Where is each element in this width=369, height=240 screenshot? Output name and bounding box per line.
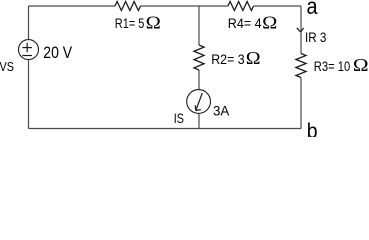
svg-text:VS: VS <box>0 59 14 74</box>
current arrow IR3 <box>297 28 304 32</box>
resistor R1 <box>115 2 140 11</box>
wire mid junction to R4 <box>199 5 228 7</box>
svg-text:b: b <box>307 119 318 137</box>
svg-text:a: a <box>307 0 318 19</box>
wire mid junction down to R2 <box>198 6 200 45</box>
wire top-left to R1 <box>29 5 116 7</box>
svg-text:Ω: Ω <box>353 55 369 75</box>
wire IS to bottom <box>198 113 200 128</box>
svg-text:R4= 4: R4= 4 <box>228 15 262 31</box>
resistor R4 <box>228 2 253 11</box>
svg-text:Ω: Ω <box>246 48 261 68</box>
wire node a down right side <box>300 6 302 54</box>
wire left side top to VS <box>28 6 30 40</box>
svg-text:20 V: 20 V <box>43 44 72 62</box>
wire VS to bottom-left corner <box>28 60 30 129</box>
svg-text:Ω: Ω <box>146 12 161 32</box>
wire R1 to mid junction <box>141 5 200 7</box>
svg-text:IR 3: IR 3 <box>305 29 327 45</box>
svg-text:R3= 10: R3= 10 <box>314 58 351 74</box>
wire R4 to top-right corner node a <box>254 5 302 7</box>
current source IS <box>187 90 211 114</box>
svg-text:Ω: Ω <box>262 12 277 32</box>
svg-text:R1= 5: R1= 5 <box>115 15 145 31</box>
wire R3 to bottom-right corner node b <box>300 78 302 129</box>
svg-text:IS: IS <box>174 110 184 126</box>
resistor R3 <box>296 54 306 78</box>
svg-text:R2= 3: R2= 3 <box>211 51 245 67</box>
resistor R2 <box>194 45 204 70</box>
svg-text:3A: 3A <box>213 102 230 118</box>
bottom wire <box>29 128 302 130</box>
wire R2 to IS <box>198 70 200 90</box>
voltage source VS <box>19 40 39 60</box>
